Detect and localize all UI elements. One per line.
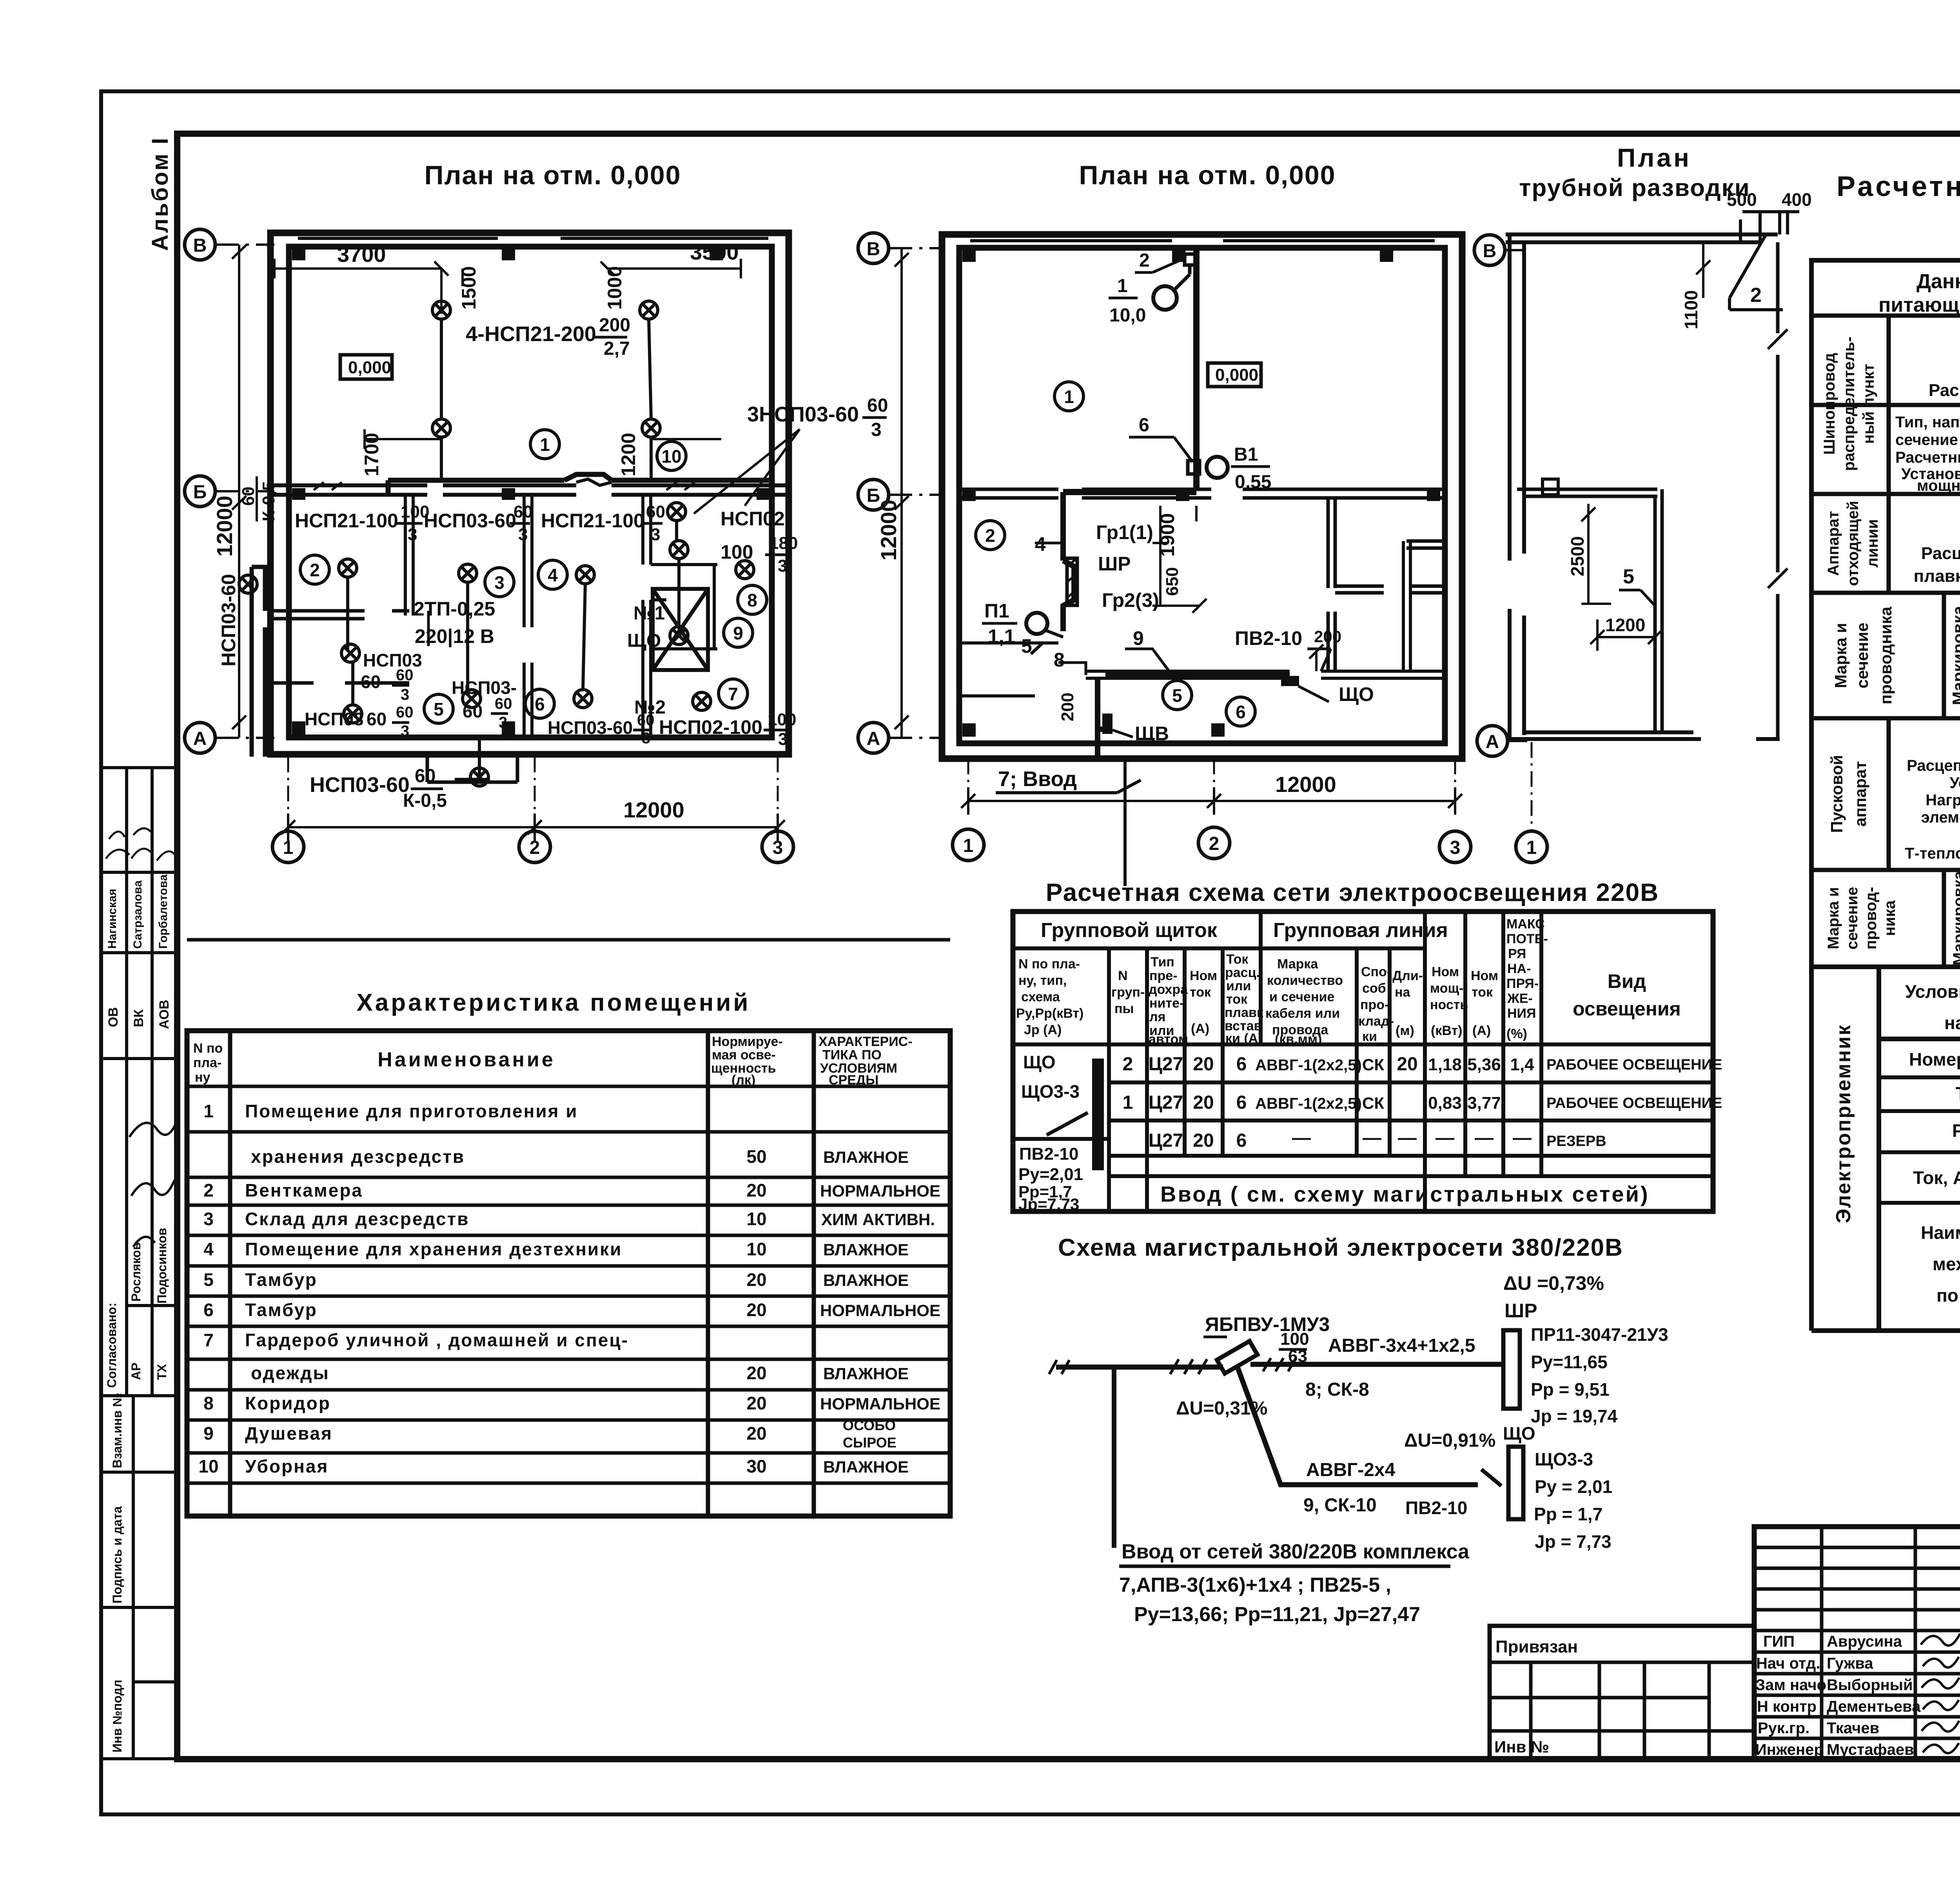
svg-text:20: 20	[1193, 1130, 1214, 1151]
group labels	[984, 521, 1374, 745]
svg-text:1: 1	[1526, 837, 1537, 858]
svg-text:ток: ток	[1190, 985, 1211, 1000]
svg-text:Тип: Тип	[1151, 955, 1174, 970]
svg-text:Рр = 9,51: Рр = 9,51	[1531, 1379, 1610, 1400]
svg-text:Ру=2,01: Ру=2,01	[1018, 1165, 1083, 1184]
main feeder line	[1056, 1364, 1503, 1367]
svg-text:0,000: 0,000	[1215, 365, 1258, 385]
svg-text:5: 5	[203, 1269, 214, 1290]
svg-text:ну: ну	[195, 1070, 211, 1085]
svg-text:Jр (А): Jр (А)	[1024, 1022, 1062, 1037]
svg-text:кабеля или: кабеля или	[1265, 1006, 1340, 1021]
svg-text:3,77: 3,77	[1467, 1093, 1501, 1113]
svg-text:Расчетный ток, А: Расчетный ток, А	[1895, 449, 1960, 466]
svg-text:пла-: пла-	[193, 1055, 221, 1070]
svg-text:1900: 1900	[1156, 513, 1178, 557]
svg-text:Электроприемник: Электроприемник	[1832, 1024, 1855, 1223]
left rotated 12000	[900, 248, 903, 738]
svg-text:12000: 12000	[623, 797, 684, 822]
svg-text:180: 180	[769, 534, 798, 553]
svg-text:на: на	[1395, 985, 1411, 1000]
svg-text:Шинопровод: Шинопровод	[1821, 353, 1838, 455]
svg-text:2: 2	[1209, 834, 1220, 854]
svg-text:6: 6	[1236, 1092, 1247, 1113]
svg-text:60: 60	[361, 672, 381, 692]
svg-text:Сатрзалова: Сатрзалова	[131, 880, 144, 949]
svg-text:РАБОЧЕЕ ОСВЕЩЕНИЕ: РАБОЧЕЕ ОСВЕЩЕНИЕ	[1546, 1057, 1722, 1073]
svg-text:ЩО3-3: ЩО3-3	[1535, 1449, 1593, 1469]
svg-text:Ток, А: Ток, А	[1913, 1168, 1960, 1188]
svg-text:ПОТЕ-: ПОТЕ-	[1506, 932, 1548, 946]
svg-text:4-НСП21-200: 4-НСП21-200	[466, 322, 596, 346]
svg-text:Групповая линия: Групповая линия	[1273, 919, 1448, 942]
svg-text:20: 20	[746, 1423, 766, 1444]
svg-text:2,7: 2,7	[604, 338, 630, 359]
svg-text:или: или	[1226, 979, 1251, 993]
svg-text:60: 60	[637, 712, 655, 729]
svg-text:2: 2	[985, 525, 995, 546]
svg-text:3: 3	[203, 1209, 214, 1229]
svg-text:АВВГ-1(2х2,5): АВВГ-1(2х2,5)	[1255, 1057, 1362, 1074]
svg-text:СК: СК	[1362, 1055, 1384, 1074]
svg-text:В: В	[193, 235, 207, 256]
svg-text:20: 20	[746, 1300, 766, 1320]
svg-text:Помещение для приготовления: Помещение для приготовления и	[245, 1101, 578, 1121]
svg-text:Аврусина: Аврусина	[1827, 1633, 1902, 1650]
svg-text:автом: автом	[1149, 1032, 1188, 1047]
svg-text:ХАРАКТЕРИС-: ХАРАКТЕРИС-	[818, 1034, 913, 1049]
svg-text:клад-: клад-	[1358, 1014, 1394, 1029]
svg-text:Установка,А.: Установка,А.	[1949, 774, 1960, 792]
svg-text:Подосинков: Подосинков	[155, 1228, 169, 1304]
svg-text:РЯ: РЯ	[1508, 946, 1526, 961]
svg-text:1200: 1200	[617, 433, 639, 476]
svg-text:Условное обозначение: Условное обозначение	[1905, 981, 1960, 1002]
svg-text:Ру,Рр(кВт): Ру,Рр(кВт)	[1016, 1006, 1083, 1021]
riser vertical with breaks	[1776, 242, 1780, 739]
electro-receiver section	[1811, 967, 1960, 1331]
row5	[1825, 871, 1960, 966]
svg-text:Согласовано:: Согласовано:	[105, 1303, 119, 1388]
svg-text:1: 1	[1117, 276, 1128, 296]
svg-text:Тип, напряжение,: Тип, напряжение,	[1895, 414, 1960, 431]
svg-text:6: 6	[1236, 702, 1246, 722]
svg-text:сечение (шинопровода): сечение (шинопровода)	[1895, 431, 1960, 449]
svg-text:А: А	[1486, 732, 1499, 752]
svg-text:механизма: механизма	[1933, 1254, 1960, 1274]
fraction bars plan1	[392, 337, 887, 789]
svg-text:Помещение для хранения дезтех: Помещение для хранения дезтехники	[245, 1239, 622, 1259]
left column content	[1018, 1052, 1083, 1213]
compressor circle	[1153, 286, 1177, 310]
svg-text:—: —	[1513, 1128, 1532, 1148]
svg-text:Б: Б	[193, 482, 207, 503]
svg-text:7,АПВ-3(1х6)+1х4 ; ПВ25-5 ,: 7,АПВ-3(1х6)+1х4 ; ПВ25-5 ,	[1119, 1574, 1391, 1596]
svg-text:1200: 1200	[1605, 615, 1645, 635]
ШР cabinet	[1067, 558, 1077, 605]
ShR bar	[1503, 1330, 1520, 1409]
svg-text:А: А	[193, 728, 207, 749]
svg-text:60: 60	[239, 487, 258, 506]
svg-text:Гардероб уличной , домашней и: Гардероб уличной , домашней и спец-	[245, 1330, 629, 1350]
bottom axis circles	[272, 831, 793, 863]
svg-text:3: 3	[494, 572, 505, 593]
lamps room1	[239, 301, 754, 786]
dims 1900 650	[1160, 506, 1196, 606]
svg-text:1: 1	[1064, 387, 1074, 407]
svg-text:3НСП03-60: 3НСП03-60	[747, 403, 859, 426]
svg-text:Jр=7,73: Jр=7,73	[1018, 1195, 1079, 1213]
svg-text:элемент теплового: элемент теплового	[1921, 809, 1960, 826]
svg-text:ТИКА ПО: ТИКА ПО	[822, 1048, 882, 1062]
svg-text:60: 60	[495, 695, 512, 712]
svg-text:(кВт): (кВт)	[1431, 1023, 1462, 1038]
plan1 middle wall (axis Б)	[270, 485, 789, 495]
svg-text:3500: 3500	[690, 240, 739, 264]
svg-text:НОРМАЛЬНОЕ: НОРМАЛЬНОЕ	[820, 1301, 940, 1320]
svg-text:ток: ток	[1226, 992, 1248, 1007]
svg-text:8: 8	[1054, 649, 1065, 671]
bottom dim	[288, 814, 778, 841]
svg-text:200: 200	[1314, 627, 1341, 646]
wall hatch marks near middle wall	[314, 482, 695, 490]
lamps lower rooms	[339, 559, 357, 577]
svg-text:ВЛАЖНОЕ: ВЛАЖНОЕ	[823, 1148, 909, 1166]
svg-text:мощность, кВт: мощность, кВт	[1917, 477, 1960, 494]
0,000 box	[1208, 363, 1261, 387]
МТ / Ракита subcolumn	[151, 1306, 154, 1396]
svg-text:60: 60	[646, 502, 665, 521]
vzam inv cell	[101, 1396, 177, 1472]
svg-text:НСП03-60: НСП03-60	[548, 717, 633, 738]
top dim lines	[274, 267, 741, 270]
svg-text:ПВ2-10: ПВ2-10	[1405, 1498, 1467, 1518]
svg-text:К-0,5: К-0,5	[259, 481, 278, 521]
svg-text:2: 2	[1139, 250, 1150, 271]
svg-text:Нач отд.: Нач отд.	[1756, 1655, 1820, 1672]
row2	[1825, 501, 1881, 586]
svg-text:Дементьева: Дементьева	[1827, 1698, 1921, 1715]
svg-text:Марка: Марка	[1277, 957, 1318, 972]
svg-text:Инженер: Инженер	[1755, 1741, 1824, 1758]
svg-text:1100: 1100	[1681, 290, 1701, 329]
svg-text:—: —	[1398, 1128, 1417, 1148]
svg-text:Ввод ( см. схему магистральных: Ввод ( см. схему магистральных сетей)	[1160, 1182, 1650, 1206]
svg-text:аппарат: аппарат	[1851, 761, 1869, 826]
svg-text:3: 3	[778, 556, 787, 576]
svg-text:Рр = 1,7: Рр = 1,7	[1534, 1504, 1602, 1524]
labels plan1	[295, 315, 888, 811]
svg-text:—: —	[1475, 1128, 1494, 1148]
svg-text:1700: 1700	[361, 433, 383, 476]
svg-text:N по пла-: N по пла-	[1018, 957, 1080, 972]
П1 fan circle	[1026, 613, 1047, 634]
svg-text:1: 1	[1123, 1092, 1133, 1113]
plan2 outer walls	[942, 234, 1462, 759]
pilasters	[962, 249, 1440, 737]
svg-text:Рн, кВт: Рн, кВт	[1952, 1120, 1960, 1141]
plan1 axis circles left	[185, 229, 215, 753]
svg-text:Нормируе-: Нормируе-	[712, 1034, 783, 1049]
svg-text:отходящей: отходящей	[1844, 501, 1862, 586]
header	[1878, 270, 1960, 316]
svg-text:63: 63	[1288, 1347, 1307, 1366]
svg-text:линии: линии	[1864, 519, 1881, 567]
svg-text:Наименование: Наименование	[1921, 1222, 1960, 1243]
svg-text:(кв,мм): (кв,мм)	[1275, 1032, 1322, 1047]
signatures	[1921, 1634, 1960, 1753]
room number circles plan1	[300, 430, 767, 723]
svg-text:Данные: Данные	[1916, 270, 1960, 293]
svg-text:60: 60	[867, 395, 888, 416]
inner frame	[177, 134, 1960, 1759]
svg-text:хранения дезсредств: хранения дезсредств	[251, 1146, 465, 1167]
plan2 middle wall	[959, 489, 1445, 498]
plan1 pilasters	[292, 247, 770, 735]
svg-text:Инв №: Инв №	[1494, 1738, 1549, 1756]
plan1 partition x=1042	[405, 495, 413, 616]
svg-text:Ном: Ном	[1471, 968, 1498, 983]
svg-text:Маркировка: Маркировка	[1949, 606, 1960, 705]
leader line 3НСП03-60	[694, 429, 800, 514]
svg-text:Jр = 19,74: Jр = 19,74	[1531, 1406, 1618, 1426]
svg-text:Ру=11,65: Ру=11,65	[1531, 1352, 1608, 1372]
svg-text:Подпись и дата: Подпись и дата	[110, 1506, 124, 1603]
svg-text:МАКС: МАКС	[1506, 917, 1545, 932]
svg-text:5: 5	[1172, 685, 1182, 706]
svg-text:3: 3	[499, 714, 507, 731]
svg-text:3: 3	[773, 837, 783, 858]
svg-text:ЩО3-3: ЩО3-3	[1021, 1081, 1080, 1102]
svg-text:100: 100	[1280, 1329, 1309, 1349]
svg-text:60: 60	[514, 502, 533, 521]
svg-text:ЩО: ЩО	[1503, 1423, 1535, 1444]
plan1 outer wall	[270, 233, 789, 754]
svg-text:Взам.инв №: Взам.инв №	[110, 1393, 124, 1468]
svg-text:дохра: дохра	[1149, 982, 1188, 997]
svg-text:Спо-: Спо-	[1361, 964, 1391, 979]
svg-text:1: 1	[283, 837, 294, 858]
svg-text:пы: пы	[1114, 1001, 1134, 1016]
svg-text:6: 6	[203, 1300, 214, 1320]
svg-text:7: 7	[203, 1330, 214, 1350]
room circles	[1054, 382, 1083, 411]
svg-text:Мустафаев: Мустафаев	[1827, 1741, 1914, 1758]
svg-text:Душевая: Душевая	[245, 1423, 333, 1444]
svg-text:и сечение: и сечение	[1269, 990, 1334, 1004]
svg-text:НОРМАЛЬНОЕ: НОРМАЛЬНОЕ	[820, 1182, 940, 1200]
top right detail	[1740, 212, 1799, 242]
svg-text:20: 20	[1397, 1054, 1417, 1075]
svg-text:1500: 1500	[458, 266, 480, 310]
svg-text:В: В	[867, 239, 880, 260]
svg-text:5,36: 5,36	[1467, 1055, 1501, 1074]
svg-text:Ном: Ном	[1190, 968, 1217, 983]
svg-text:НСП21-100: НСП21-100	[541, 510, 644, 532]
svg-text:СЫРОЕ: СЫРОЕ	[843, 1435, 897, 1451]
svg-text:0,55: 0,55	[1235, 472, 1271, 492]
svg-text:12000: 12000	[1275, 772, 1336, 797]
ЩВ black box	[1102, 714, 1112, 734]
svg-text:питающей сети: питающей сети	[1878, 294, 1960, 316]
bottom dim	[968, 787, 1455, 815]
svg-text:Коридор: Коридор	[245, 1393, 331, 1413]
svg-text:Ввод от сетей 380/220В комплек: Ввод от сетей 380/220В комплекса	[1122, 1540, 1470, 1563]
signatures table top	[101, 768, 177, 953]
svg-text:ЩО: ЩО	[1023, 1052, 1056, 1072]
svg-text:В1: В1	[1234, 444, 1258, 465]
svg-text:Маркировка: Маркировка	[1950, 871, 1960, 966]
svg-text:Аппарат: Аппарат	[1825, 511, 1842, 576]
svg-text:ВЛАЖНОЕ: ВЛАЖНОЕ	[823, 1364, 909, 1383]
svg-text:0,83: 0,83	[1428, 1093, 1462, 1113]
svg-text:2: 2	[1123, 1054, 1133, 1075]
svg-text:Марка и: Марка и	[1831, 623, 1850, 688]
axis dash-dot leaders	[215, 245, 274, 738]
svg-text:3: 3	[871, 419, 882, 440]
svg-text:ВЛАЖНОЕ: ВЛАЖНОЕ	[823, 1271, 909, 1289]
inner room	[1524, 489, 1662, 732]
svg-text:1: 1	[963, 835, 974, 856]
signature grid columns	[1822, 1527, 1960, 1759]
svg-text:ВЛАЖНОЕ: ВЛАЖНОЕ	[823, 1458, 909, 1476]
svg-text:3: 3	[651, 525, 660, 544]
svg-text:на плане: на плане	[1944, 1013, 1960, 1033]
header	[193, 1041, 223, 1085]
svg-text:Марка и: Марка и	[1825, 887, 1842, 949]
svg-text:ГИП: ГИП	[1763, 1633, 1795, 1650]
svg-text:9: 9	[733, 623, 743, 643]
svg-text:20: 20	[746, 1180, 766, 1200]
svg-text:сечение: сечение	[1844, 887, 1861, 950]
row4	[1828, 755, 1869, 833]
svg-text:5: 5	[1623, 565, 1634, 588]
svg-text:3: 3	[401, 686, 409, 703]
svg-text:50: 50	[746, 1146, 766, 1167]
svg-text:ток: ток	[1472, 985, 1493, 1000]
svg-text:3: 3	[1450, 837, 1461, 858]
svg-text:НСП03-60: НСП03-60	[424, 510, 516, 532]
vent shaft X-box	[653, 589, 708, 670]
svg-text:НСП02-: НСП02-	[720, 508, 791, 530]
svg-text:ΔU =0,73%: ΔU =0,73%	[1503, 1272, 1604, 1294]
svg-text:РЕЗЕРВ: РЕЗЕРВ	[1546, 1133, 1606, 1149]
svg-text:(м): (м)	[1396, 1023, 1414, 1038]
svg-text:ника: ника	[1881, 900, 1898, 936]
svg-text:План: План	[1617, 143, 1691, 172]
svg-text:Н контр: Н контр	[1757, 1698, 1817, 1715]
svg-text:Ру = 2,01: Ру = 2,01	[1535, 1476, 1612, 1497]
svg-text:Росляков: Росляков	[129, 1242, 143, 1302]
OB BK AOB row	[101, 953, 177, 1059]
svg-text:Ткачев: Ткачев	[1827, 1720, 1879, 1737]
name rows	[1754, 1652, 1960, 1738]
svg-text:Ц27: Ц27	[1149, 1092, 1183, 1113]
svg-text:Зам начо: Зам начо	[1755, 1676, 1826, 1694]
0,000 box	[340, 355, 392, 379]
svg-text:расц.: расц.	[1225, 965, 1260, 980]
svg-text:20: 20	[746, 1393, 766, 1413]
svg-text:3: 3	[408, 525, 417, 544]
svg-text:провод-: провод-	[1862, 887, 1880, 950]
svg-text:Характеристика помещений: Характеристика помещений	[356, 989, 750, 1016]
svg-text:3: 3	[642, 730, 650, 747]
svg-text:СК: СК	[1362, 1094, 1384, 1112]
plan1 top wall window lines	[298, 237, 768, 240]
main right part	[1754, 1527, 1960, 1759]
svg-text:2: 2	[310, 560, 320, 580]
svg-text:4: 4	[203, 1239, 214, 1259]
svg-text:—: —	[1363, 1128, 1381, 1148]
svg-text:РАБОЧЕЕ ОСВЕЩЕНИЕ: РАБОЧЕЕ ОСВЕЩЕНИЕ	[1546, 1095, 1722, 1111]
svg-text:Расцепитель или: Расцепитель или	[1921, 544, 1960, 563]
svg-text:мая осве-: мая осве-	[712, 1048, 776, 1062]
svg-text:ВК: ВК	[131, 1009, 146, 1027]
svg-text:650: 650	[1163, 567, 1182, 596]
svg-text:2500: 2500	[1567, 536, 1588, 576]
svg-text:ки: ки	[1362, 1029, 1377, 1044]
svg-text:7; Ввод: 7; Ввод	[998, 767, 1077, 791]
plan3 walls	[1506, 234, 1778, 242]
svg-text:—: —	[1292, 1128, 1311, 1148]
ЩО black box	[1281, 676, 1299, 686]
svg-text:распределитель-: распределитель-	[1840, 337, 1858, 471]
wiring drops	[348, 521, 679, 768]
svg-text:3: 3	[401, 723, 409, 740]
svg-text:ПР11-3047-21У3: ПР11-3047-21У3	[1531, 1324, 1668, 1345]
svg-text:Венткамера: Венткамера	[245, 1180, 363, 1200]
svg-text:плавкая вставка, А: плавкая вставка, А	[1914, 567, 1960, 586]
svg-text:100: 100	[720, 541, 753, 563]
svg-text:4: 4	[548, 565, 558, 585]
svg-text:А: А	[867, 728, 880, 749]
ЩО bar	[1508, 1447, 1523, 1519]
svg-text:60: 60	[396, 704, 414, 721]
svg-text:НСП03-60: НСП03-60	[218, 574, 240, 666]
svg-text:План на отм. 0,000: План на отм. 0,000	[424, 160, 681, 190]
upper small rows	[1754, 1547, 1960, 1631]
axis circles	[1474, 235, 1505, 265]
plan1 lower-left room walls	[270, 611, 409, 683]
svg-text:НА-: НА-	[1507, 961, 1531, 976]
svg-text:60: 60	[396, 666, 414, 684]
svg-text:НОРМАЛЬНОЕ: НОРМАЛЬНОЕ	[820, 1395, 940, 1413]
svg-text:трубной разводки: трубной разводки	[1519, 174, 1750, 202]
svg-text:Дли-: Дли-	[1392, 968, 1423, 983]
svg-text:К-0,5: К-0,5	[403, 790, 447, 811]
svg-text:ПВ2-10: ПВ2-10	[1019, 1144, 1078, 1164]
dim 2500	[1581, 504, 1611, 604]
plan1 vertical dim 12000	[238, 245, 240, 738]
svg-text:(А): (А)	[1472, 1023, 1491, 1038]
svg-text:Нагинская: Нагинская	[106, 889, 119, 949]
svg-text:АВВГ-3х4+1х2,5: АВВГ-3х4+1х2,5	[1328, 1335, 1475, 1356]
svg-text:100: 100	[768, 710, 796, 729]
svg-text:9, СК-10: 9, СК-10	[1303, 1495, 1377, 1516]
svg-text:ЖЕ-: ЖЕ-	[1507, 991, 1533, 1006]
svg-text:Ру=13,66; Рр=11,21, Jр=27,47: Ру=13,66; Рр=11,21, Jр=27,47	[1134, 1603, 1420, 1626]
svg-text:Расчетная схема электросети 38: Расчетная схема электросети 380/220 В	[1837, 171, 1960, 202]
svg-text:200: 200	[1058, 693, 1077, 721]
svg-text:освещения: освещения	[1573, 998, 1681, 1020]
svg-text:3: 3	[778, 730, 788, 749]
svg-text:Гужва: Гужва	[1827, 1655, 1873, 1672]
svg-text:30: 30	[746, 1456, 766, 1476]
approval names rotated	[106, 874, 170, 949]
svg-text:60: 60	[367, 709, 387, 729]
conduit runs (thick)	[1193, 248, 1200, 489]
svg-text:Нагревательный: Нагревательный	[1926, 792, 1960, 809]
